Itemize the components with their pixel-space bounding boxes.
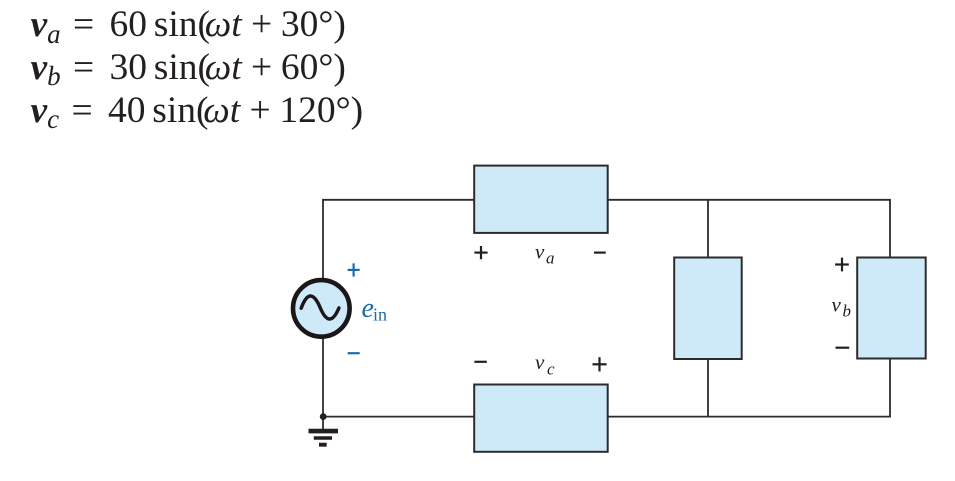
equation vc = 40 sin(wt + 120deg) bbox=[31, 92, 364, 130]
wire: left vertical from top-left corner to source top bbox=[322, 200, 324, 281]
equation vb = 30 sin(wt + 60deg) bbox=[31, 49, 346, 87]
component box vc (series element, bottom branch) bbox=[474, 385, 608, 452]
wire: middle branch vertical top bbox=[707, 200, 709, 258]
polarity - of source (blue) bbox=[348, 352, 360, 354]
polarity + of source (blue) bbox=[348, 263, 360, 276]
label va bbox=[535, 240, 555, 268]
equation va = 60 sin(wt + 30deg) bbox=[31, 6, 346, 44]
wire: source bottom lead to ground node bbox=[322, 337, 324, 429]
svg-text:v: v bbox=[535, 240, 545, 264]
component box middle (parallel element) bbox=[674, 258, 742, 360]
polarity + of vb bbox=[835, 258, 849, 272]
label vb bbox=[832, 293, 852, 321]
wire: right branch vertical top bbox=[889, 200, 891, 258]
svg-text:c: c bbox=[547, 360, 555, 379]
wire: top horizontal left segment to va box bbox=[322, 199, 474, 201]
ground symbol bbox=[309, 431, 339, 445]
component box va (series element, top branch) bbox=[474, 166, 608, 233]
label vc bbox=[535, 350, 555, 379]
AC source e_in (circle with sine) bbox=[293, 280, 350, 337]
svg-text:b: b bbox=[843, 302, 852, 321]
wire: middle branch vertical bottom bbox=[707, 359, 709, 417]
wire: bottom horizontal bus from ground node to right bbox=[323, 416, 891, 418]
wire: top horizontal right segment from va box to right corner bbox=[608, 199, 891, 201]
polarity - of va bbox=[594, 252, 606, 254]
svg-text:v: v bbox=[535, 350, 545, 374]
polarity + of vc bbox=[593, 357, 607, 371]
svg-text:in: in bbox=[373, 305, 387, 325]
component box vb (parallel element, right) bbox=[857, 258, 926, 359]
polarity - of vc bbox=[474, 361, 486, 363]
svg-text:a: a bbox=[546, 249, 555, 268]
polarity - of vb bbox=[836, 347, 850, 349]
junction node dot (source/ground/bus) bbox=[320, 413, 327, 420]
wire: right branch vertical bottom bbox=[889, 358, 891, 416]
polarity + of va bbox=[474, 246, 487, 259]
label e_in (blue) bbox=[362, 293, 388, 325]
svg-text:v: v bbox=[832, 293, 842, 317]
